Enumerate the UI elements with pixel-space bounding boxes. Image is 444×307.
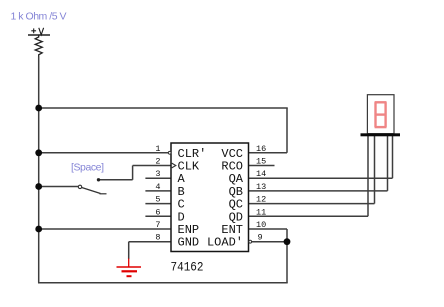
svg-text:9: 9 [258,233,263,243]
svg-text:10: 10 [256,220,266,230]
svg-text:12: 12 [256,195,266,205]
svg-text:11: 11 [256,207,266,217]
svg-text:2: 2 [155,157,160,167]
svg-text:3: 3 [155,169,160,179]
svg-text:5: 5 [155,195,160,205]
svg-text:LOAD': LOAD' [207,236,243,250]
svg-text:1: 1 [155,144,160,154]
svg-text:13: 13 [256,182,266,192]
svg-text:7: 7 [155,220,160,230]
svg-text:16: 16 [256,144,266,154]
svg-text:15: 15 [256,157,266,167]
svg-text:1 k Ohm /5 V: 1 k Ohm /5 V [11,11,67,23]
svg-text:14: 14 [256,169,266,179]
svg-text:[Space]: [Space] [71,162,104,174]
svg-text:4: 4 [155,182,160,192]
svg-text:GND: GND [178,236,200,250]
svg-text:74162: 74162 [171,260,204,275]
svg-text:8: 8 [155,233,160,243]
svg-text:6: 6 [155,207,160,217]
